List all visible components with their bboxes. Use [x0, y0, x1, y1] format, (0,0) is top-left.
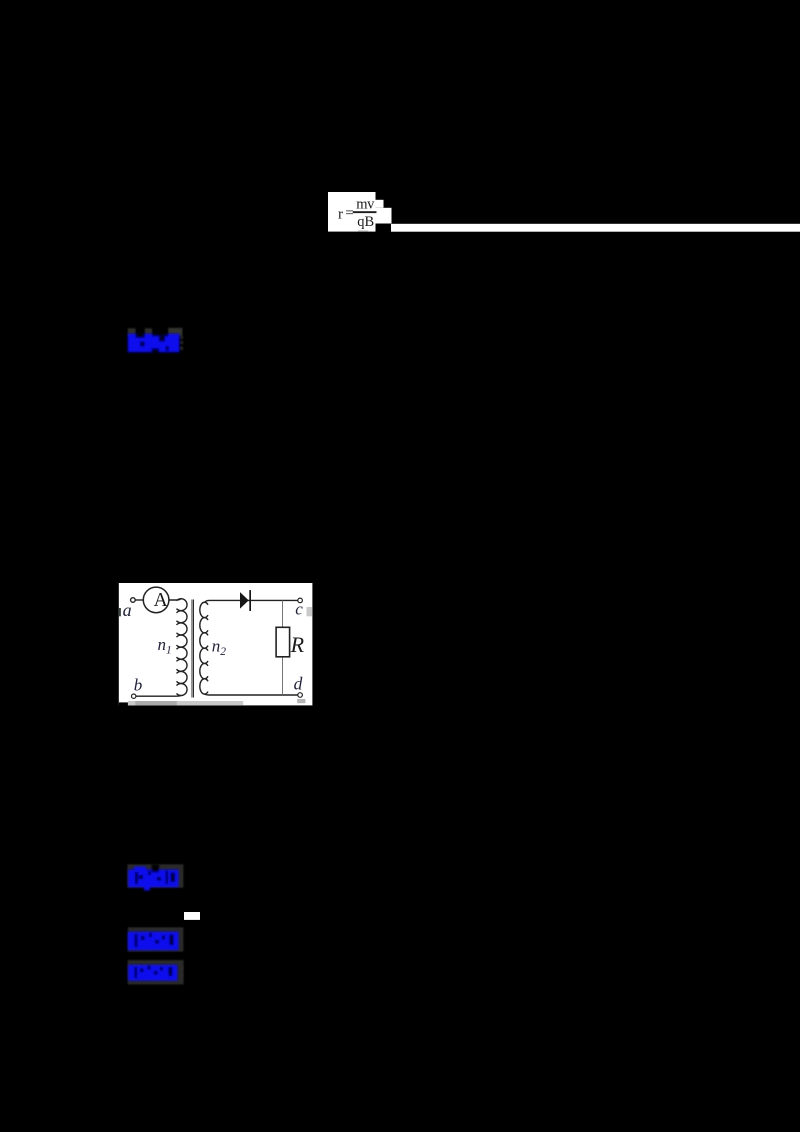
- svg-text:d: d: [294, 673, 303, 693]
- svg-text:mv: mv: [356, 196, 375, 212]
- svg-text:R: R: [290, 632, 305, 657]
- svg-text:c: c: [295, 599, 303, 618]
- svg-text:a: a: [123, 600, 132, 620]
- svg-text:A: A: [154, 590, 168, 611]
- svg-text:b: b: [134, 676, 143, 695]
- svg-text:qB: qB: [357, 214, 374, 230]
- svg-text:r: r: [338, 206, 343, 222]
- svg-text:=: =: [345, 206, 353, 222]
